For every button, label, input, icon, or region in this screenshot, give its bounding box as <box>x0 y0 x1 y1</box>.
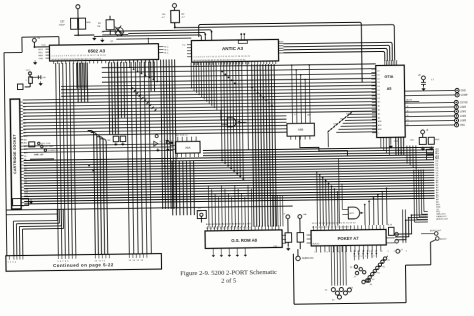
svg-text:A5: A5 <box>387 87 392 91</box>
power node VCC right <box>396 249 400 253</box>
svg-text:VCC: VCC <box>41 45 46 47</box>
svg-text:16 24 19 30: 16 24 19 30 <box>353 256 375 258</box>
svg-text:RES: RES <box>39 55 44 57</box>
svg-text:1 2 3 4: 1 2 3 4 <box>7 262 16 264</box>
gate A6A <box>175 141 200 153</box>
wire bundle ANTIC to GTIA top <box>283 42 392 62</box>
wire bundle to ANTIC <box>102 30 211 42</box>
ROM right pins <box>282 234 286 236</box>
svg-text:AN1: AN1 <box>378 124 382 127</box>
svg-text:A3: A3 <box>23 112 25 115</box>
connector keypad circles staircase <box>383 257 386 260</box>
svg-text:A0: A0 <box>378 101 380 104</box>
connector AUDIO I/O <box>296 256 300 260</box>
svg-text:AUDIO I/O: AUDIO I/O <box>302 257 314 260</box>
svg-text:D3: D3 <box>24 166 26 168</box>
connector continued box <box>6 254 162 272</box>
wire A6B outputs to GTIA <box>351 110 376 112</box>
capacitor C57 <box>71 18 78 29</box>
caption figure title <box>180 269 277 285</box>
transistor Q1 <box>115 26 122 36</box>
POKEY right components <box>388 227 394 235</box>
svg-text:T1 T2 T3: T1 T2 T3 <box>176 158 184 160</box>
IC O.S. ROM A8 <box>205 230 282 249</box>
wire ANTIC long verticals to ROM <box>252 64 254 226</box>
connector pot circles P <box>331 288 335 292</box>
bus band3 lower <box>24 191 434 197</box>
svg-text:C57: C57 <box>60 20 65 23</box>
svg-text:D4: D4 <box>24 169 26 171</box>
svg-text:1M: 1M <box>97 26 100 28</box>
svg-text:D4: D4 <box>378 86 380 88</box>
junction dots band3 left <box>88 165 90 167</box>
wire long single lines left <box>6 206 292 210</box>
connector keypad extra circles <box>354 265 357 268</box>
svg-text:POKEY A7: POKEY A7 <box>338 236 360 241</box>
bus band3 main long lines <box>24 155 434 161</box>
gate A6B <box>287 123 315 136</box>
svg-text:RDY: RDY <box>38 49 43 51</box>
svg-text:X6: X6 <box>350 267 352 269</box>
6502 left pins <box>45 48 49 50</box>
resistor R64 <box>428 137 434 144</box>
svg-text:A7: A7 <box>24 125 26 128</box>
svg-text:AN0: AN0 <box>378 120 382 123</box>
svg-text:D1: D1 <box>377 74 379 76</box>
svg-text:A11: A11 <box>24 138 27 141</box>
resistor R5 oval <box>29 77 33 84</box>
svg-text:VSS: VSS <box>273 246 278 248</box>
staircase 6502 bus merge <box>131 87 133 89</box>
svg-text:OSC CON: OSC CON <box>41 143 51 145</box>
svg-text:22: 22 <box>407 124 409 126</box>
ANTIC bottom pin row <box>194 62 196 65</box>
connector AUDIO-OUT circles <box>434 232 438 236</box>
capacitor C49 <box>30 76 40 78</box>
svg-text:GTIA: GTIA <box>384 75 393 79</box>
svg-text:A9: A9 <box>24 132 26 135</box>
svg-text:A12: A12 <box>307 113 310 116</box>
resistor R3 R4 box <box>171 10 180 22</box>
svg-text:A10: A10 <box>24 135 27 138</box>
svg-text:D3: D3 <box>377 82 379 84</box>
ANTIC top pins <box>240 34 242 40</box>
capacitor C61 <box>421 82 426 84</box>
staircase ANTIC merge <box>221 71 223 73</box>
svg-text:LUM0: LUM0 <box>460 107 467 109</box>
svg-text:4.7K: 4.7K <box>388 224 393 226</box>
svg-text:AUDIO-OUT: AUDIO-OUT <box>430 229 442 232</box>
svg-text:18: 18 <box>406 106 408 108</box>
ANTIC right pins AN bus <box>278 42 283 44</box>
svg-text:K8: K8 <box>370 284 372 286</box>
capacitor C64 C65 <box>113 136 119 142</box>
wire verticals to ROM top <box>207 185 210 227</box>
svg-text:D1: D1 <box>24 159 26 161</box>
svg-text:D0: D0 <box>377 71 379 73</box>
junction dots ANTIC bundle on band A <box>251 87 253 89</box>
GTIA left pins <box>371 68 375 70</box>
svg-text:D8: D8 <box>24 182 26 184</box>
svg-text:10 11 12: 10 11 12 <box>94 260 105 262</box>
ground <box>101 38 105 42</box>
ground <box>421 146 425 150</box>
wire column to POKEY right pins <box>395 215 428 234</box>
power node A6A <box>166 141 169 144</box>
svg-text:D14: D14 <box>25 202 28 204</box>
power node J2 <box>421 76 425 80</box>
wire bottom-right border <box>292 254 295 304</box>
svg-text:A0: A0 <box>23 102 25 105</box>
wire bracket from label column <box>413 170 416 223</box>
wire POKEY pot lines <box>330 246 333 286</box>
bus data lines upper <box>102 64 376 68</box>
connector luma outputs <box>405 101 454 104</box>
svg-text:K5: K5 <box>383 266 385 268</box>
svg-text:A2: A2 <box>23 109 25 112</box>
wire filter verticals <box>406 146 408 164</box>
svg-text:D6: D6 <box>378 94 380 96</box>
svg-text:OSC: OSC <box>460 125 465 127</box>
resistor R54 <box>297 233 304 243</box>
POKEY left pins <box>307 234 311 236</box>
wire keypad feeds <box>353 250 355 260</box>
power node pullup 2 <box>298 215 302 219</box>
svg-text:COMP: COMP <box>461 95 468 97</box>
svg-text:A12: A12 <box>24 142 27 145</box>
GTIA top pins <box>384 60 386 65</box>
wire 6502 fan fill <box>77 63 80 102</box>
svg-text:LUM2: LUM2 <box>460 116 467 118</box>
wire <box>77 29 79 35</box>
wire A6A gate inputs <box>23 144 172 146</box>
staircase POKEY top right feed <box>364 204 366 206</box>
wire top-left loop <box>4 51 22 53</box>
svg-text:N.C.: N.C. <box>164 46 169 48</box>
wire pair down center <box>402 209 404 242</box>
resistor R56 <box>79 18 86 29</box>
svg-text:A1: A1 <box>378 105 380 108</box>
inductor L2 <box>197 210 206 218</box>
staircase AN lines <box>327 130 329 132</box>
wire 6502 address fan <box>109 62 110 134</box>
left border wire <box>4 53 7 256</box>
wire MUTE <box>405 100 419 102</box>
wire A6B bottom route <box>300 135 348 156</box>
svg-text:K1: K1 <box>372 279 374 281</box>
svg-text:D2: D2 <box>377 78 379 80</box>
connector OSC circles <box>29 142 35 147</box>
wire GTIA video out <box>405 89 455 92</box>
transistor D2 cluster <box>155 135 158 138</box>
svg-text:IRQ: IRQ <box>39 52 43 54</box>
wire verticals ROM right pins <box>272 196 274 227</box>
svg-text:OSC GND: OSC GND <box>44 146 54 148</box>
svg-text:D10: D10 <box>24 189 27 191</box>
svg-text:K3: K3 <box>377 273 379 275</box>
ground pair right <box>166 138 169 141</box>
resistor R2 1M <box>106 20 114 30</box>
wire gtia bottom to band3 <box>380 137 382 147</box>
connector CARTRIDGE SOCKET <box>10 99 21 209</box>
ROM top pins <box>206 226 208 230</box>
capacitor C60 <box>419 137 426 144</box>
svg-text:D13: D13 <box>25 199 28 201</box>
svg-text:D9: D9 <box>24 185 26 187</box>
IC 6502 A3 <box>49 44 158 61</box>
svg-text:21: 21 <box>406 119 408 121</box>
IC ANTIC A3 <box>191 39 278 62</box>
svg-text:D0: D0 <box>24 156 26 158</box>
svg-text:+5: +5 <box>293 114 295 116</box>
continued box pin ticks <box>8 256 10 260</box>
svg-text:A14: A14 <box>24 148 27 151</box>
wire 6502 to GTIA long <box>147 38 149 44</box>
GTIA bottom pin VSS <box>390 137 392 143</box>
wire 6502 data fan <box>76 63 78 89</box>
svg-text:D5: D5 <box>24 172 26 174</box>
svg-text:A4: A4 <box>23 115 25 118</box>
svg-text:A13: A13 <box>24 145 27 148</box>
bus band A address data lines <box>61 82 376 86</box>
6502 NC pins <box>158 46 163 48</box>
IC POKEY A7 <box>311 229 386 246</box>
svg-text:GND: GND <box>461 90 466 92</box>
svg-text:T.P.: T.P. <box>198 211 202 213</box>
svg-text:Figure 2-9. 5200 2-PORT Schem: Figure 2-9. 5200 2-PORT Schematic <box>180 269 277 277</box>
power node pullup 1 <box>286 215 290 219</box>
svg-text:D7: D7 <box>378 98 380 100</box>
svg-text:A12 R/W O2: A12 R/W O2 <box>176 134 188 137</box>
svg-text:A6: A6 <box>23 122 25 125</box>
svg-text:ANTIC A3: ANTIC A3 <box>222 46 244 51</box>
svg-text:AUDIO-OUT: AUDIO-OUT <box>436 218 448 221</box>
svg-text:+5A: +5A <box>302 213 307 216</box>
ground <box>92 36 96 40</box>
crystal Y1 <box>102 34 128 36</box>
bus band3 top gtia lines <box>203 147 434 150</box>
svg-text:A6B: A6B <box>298 128 303 132</box>
svg-text:O.S. ROM A8: O.S. ROM A8 <box>231 238 257 243</box>
staircase center D4 with long verticals <box>221 62 222 160</box>
IC GTIA A5 <box>376 65 406 137</box>
svg-text:A5: A5 <box>23 118 25 121</box>
svg-text:150pF: 150pF <box>59 24 66 26</box>
svg-text:A1: A1 <box>23 105 25 108</box>
wire verticals POKEY top left staircase <box>316 171 318 173</box>
svg-text:N.C.: N.C. <box>164 49 169 51</box>
svg-text:AUDIO: AUDIO <box>440 237 447 240</box>
svg-text:R27: R27 <box>334 124 337 126</box>
svg-text:AN2: AN2 <box>378 128 382 131</box>
svg-text:N.C.: N.C. <box>165 52 170 54</box>
power node VCC 6502 <box>32 38 36 42</box>
ground <box>39 81 43 85</box>
power node VCC top-left <box>76 5 80 9</box>
svg-text:GND +5V: GND +5V <box>34 154 44 156</box>
wire long verticals to continued box group C <box>88 130 96 254</box>
svg-text:2 of 5: 2 of 5 <box>221 278 236 285</box>
svg-text:LUM3: LUM3 <box>460 120 467 122</box>
svg-text:D6: D6 <box>24 176 26 178</box>
svg-text:F0: F0 <box>182 45 186 47</box>
svg-text:5 6 7 8 9: 5 6 7 8 9 <box>57 261 69 263</box>
svg-text:A15: A15 <box>24 151 27 154</box>
power node C60 cluster <box>421 130 425 134</box>
svg-text:X7: X7 <box>354 276 356 278</box>
svg-text:A4: A4 <box>378 116 380 119</box>
svg-text:CARTRIDGE SOCKET: CARTRIDGE SOCKET <box>13 134 18 174</box>
svg-text:13 14 15 16: 13 14 15 16 <box>128 260 143 262</box>
svg-text:17: 17 <box>406 101 408 103</box>
svg-text:19: 19 <box>406 110 408 112</box>
svg-text:AN0: AN0 <box>279 40 284 43</box>
cartridge pin stubs upper <box>20 101 23 103</box>
wire ANTIC left pin verticals <box>190 63 192 89</box>
wire gtia bottom bundle <box>395 138 397 156</box>
svg-text:D5: D5 <box>378 90 380 92</box>
A6A bottom pins <box>176 153 178 157</box>
svg-text:D12: D12 <box>25 195 28 197</box>
wire center verticals to continued box group D <box>127 62 130 254</box>
POKEY bottom pins <box>315 246 317 252</box>
wire nested corners to continued box <box>12 221 14 255</box>
svg-text:AUDIO: AUDIO <box>313 242 320 245</box>
6502 bottom pin row <box>53 61 55 64</box>
svg-text:LUM1: LUM1 <box>460 111 467 113</box>
op-amp gate U1 <box>227 118 236 127</box>
svg-text:K7: K7 <box>388 260 390 262</box>
svg-text:20: 20 <box>406 115 408 117</box>
svg-text:Continued on page 5-22: Continued on page 5-22 <box>53 262 114 268</box>
wire 6502 data pin drops <box>129 60 131 67</box>
power node VCC R3 R4 <box>172 4 176 8</box>
svg-text:D11: D11 <box>24 192 27 194</box>
connector P10 small box <box>17 84 23 90</box>
svg-text:D2: D2 <box>24 162 26 164</box>
ROM bottom pins <box>212 248 214 253</box>
resistor R55 <box>285 233 292 243</box>
inductor L1 A13 filter boxes <box>426 149 433 154</box>
svg-text:+5 SWITCH: +5 SWITCH <box>47 150 58 152</box>
wire bundle to RF components <box>171 161 174 215</box>
ground <box>33 60 37 64</box>
ground near socket bottom <box>13 198 29 205</box>
svg-text:R28: R28 <box>340 119 343 121</box>
svg-text:D7: D7 <box>24 179 26 181</box>
svg-text:A8: A8 <box>24 128 26 131</box>
svg-text:6502 A3: 6502 A3 <box>88 48 106 53</box>
gate 4075 audio <box>348 207 360 219</box>
svg-text:VSS: VSS <box>39 58 44 60</box>
svg-text:A2: A2 <box>378 108 380 111</box>
wire single long vertical <box>338 159 341 224</box>
wire bundle right of 6502 <box>161 60 163 209</box>
A6A top pins <box>177 137 179 142</box>
svg-text:A6A: A6A <box>185 146 190 150</box>
test point circle <box>200 213 203 216</box>
POKEY top pins <box>312 226 314 230</box>
svg-text:CSYNC: CSYNC <box>460 102 468 104</box>
svg-text:+5: +5 <box>163 139 165 141</box>
svg-text:A3: A3 <box>378 112 380 115</box>
ANTIC left pins <box>187 44 191 46</box>
wire ANTIC middle vertical <box>247 62 248 150</box>
